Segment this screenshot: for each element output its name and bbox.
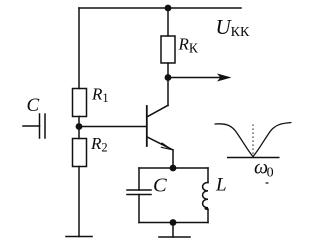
output arrowhead xyxy=(217,74,232,82)
wire R2 bottom to ground xyxy=(78,167,80,237)
ground right bar xyxy=(159,236,190,238)
transistor Q1 emitter arrowhead xyxy=(161,143,172,150)
wire input stub xyxy=(23,125,40,127)
resonance curve notch xyxy=(215,123,292,157)
resistor R1 xyxy=(73,89,87,117)
wire top rail xyxy=(79,7,241,9)
resonance curve axis xyxy=(227,157,280,159)
junction node collector/output xyxy=(165,74,172,81)
svg-text:UКК: UКК xyxy=(216,15,251,40)
junction node base xyxy=(76,123,83,130)
small dash under omega0 xyxy=(266,182,269,184)
inductor L xyxy=(203,183,208,210)
junction node tank bottom xyxy=(170,219,177,226)
dotted line at w0 xyxy=(252,125,254,156)
wire emitter to tank xyxy=(172,150,174,168)
svg-text:C: C xyxy=(27,95,40,116)
capacitor C tank plates xyxy=(127,189,151,191)
wire base node to transistor base xyxy=(79,126,147,128)
junction node top rail xyxy=(165,5,172,12)
wire output arrow xyxy=(168,77,222,79)
wire tank top xyxy=(139,167,208,169)
wire RK branch top xyxy=(167,8,169,36)
resistor R2 xyxy=(73,139,87,167)
wire tank left upper xyxy=(138,168,140,190)
transistor Q1 base bar xyxy=(146,106,148,146)
svg-text:R2: R2 xyxy=(90,134,108,155)
capacitor C input plates xyxy=(39,114,41,138)
wire tank left lower xyxy=(138,195,140,223)
svg-text:L: L xyxy=(215,175,227,196)
transistor Q1 collector lead xyxy=(147,105,168,116)
svg-text:RК: RК xyxy=(178,35,199,56)
wire R1 bottom to base node xyxy=(78,117,80,139)
resistor RK xyxy=(161,36,175,63)
transistor Q1 emitter lead xyxy=(147,137,173,150)
wire ground stem xyxy=(172,223,174,238)
svg-text:ω0: ω0 xyxy=(254,157,274,181)
wire tank bottom xyxy=(139,222,208,224)
junction node tank top xyxy=(170,165,177,172)
wire left vertical from rail to R1 xyxy=(78,8,80,89)
wire tank right upper xyxy=(207,168,209,183)
wire tank right lower xyxy=(207,209,209,222)
svg-text:C: C xyxy=(153,175,167,197)
svg-text:R1: R1 xyxy=(91,85,109,106)
wire RK bottom to collector xyxy=(167,63,169,106)
ground left bar xyxy=(66,236,92,238)
